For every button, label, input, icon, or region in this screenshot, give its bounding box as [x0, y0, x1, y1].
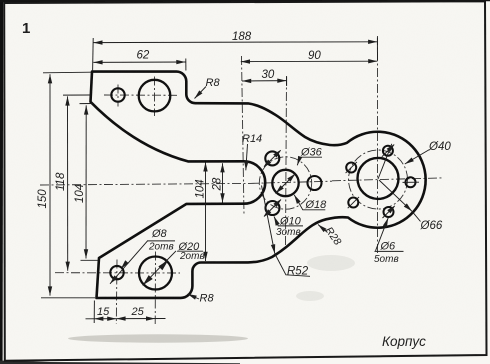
main horizontal axis boss segment	[250, 181, 332, 183]
leader F20 diagonal through hole	[143, 251, 176, 285]
F6 bottom hole diagonal	[383, 205, 396, 218]
dim text 150	[37, 189, 49, 209]
label R8 top	[206, 77, 221, 89]
leader R52 long line	[262, 186, 275, 254]
dim 104 left line	[85, 105, 87, 258]
top big hole vertical center line	[154, 77, 156, 117]
leader F66 radial	[379, 180, 412, 211]
ext line 104 top	[80, 103, 93, 105]
label R52	[287, 266, 309, 278]
cap center line x244	[242, 56, 245, 215]
leader R28	[318, 225, 328, 233]
leader F18 with shelf	[294, 195, 325, 210]
gray smudge near corpus	[296, 291, 324, 301]
ext line 150 top	[43, 71, 91, 74]
label F18	[305, 199, 328, 211]
title Korpus	[382, 334, 426, 349]
main horizontal axis left segment	[40, 183, 250, 185]
dim text 28	[212, 177, 224, 191]
bolt circle F40	[349, 150, 408, 209]
dim 150 line	[49, 74, 51, 295]
F8 leader arrows at circle	[121, 261, 128, 268]
label F66	[420, 220, 443, 232]
ext line 150 bottom	[41, 297, 95, 299]
ext line x377.5 top	[376, 38, 378, 61]
top big hole F20	[139, 80, 171, 112]
leader R8 bottom	[188, 294, 200, 299]
label 5otv	[374, 254, 399, 265]
bottom big hole F20	[139, 257, 172, 290]
label 2otv bottom	[179, 251, 205, 262]
F6 top hole radial	[378, 144, 392, 179]
dim 15-25 line	[86, 318, 166, 320]
top tab hole center line horizontal	[104, 94, 178, 96]
photo left edge	[0, 0, 3, 364]
leader R52 tail and shelf	[275, 254, 310, 277]
ext line boss top	[286, 77, 288, 87]
dim 15 arrows	[94, 318, 116, 320]
leader F8 bottom tab	[110, 241, 148, 284]
F10 hole bottom-left	[266, 201, 280, 215]
leader R14	[246, 144, 248, 170]
dim text 30	[262, 69, 275, 81]
top small hole vertical center line	[117, 85, 119, 107]
flange center line x377.5	[377, 36, 379, 253]
top small hole F8	[111, 88, 124, 101]
dim text 104 left	[74, 184, 86, 203]
label underline F6	[375, 250, 404, 252]
label R8 bottom	[200, 293, 215, 305]
boss hole F18	[272, 170, 298, 196]
F6 hole top	[383, 146, 393, 156]
F6 top hole diagonal	[382, 144, 395, 157]
F6 hole right	[406, 177, 416, 187]
dim 90 line	[241, 60, 378, 62]
label F20	[178, 241, 201, 253]
dim 104 inner line	[205, 162, 207, 261]
F6 lower-left hole diagonal	[348, 197, 359, 208]
bottom small hole F8	[110, 266, 123, 279]
ext line 118 top	[63, 94, 91, 96]
label 3otv	[276, 227, 301, 238]
dim 28 line	[222, 163, 224, 202]
leader R8 top	[195, 87, 207, 99]
gray smudge mid-right	[307, 255, 355, 271]
ext line x93 top	[92, 38, 95, 71]
figure number 1	[22, 20, 30, 37]
bottom small hole vertical center line + extension	[115, 260, 118, 325]
leader F66 tail	[412, 211, 421, 221]
dim 188 line	[93, 41, 377, 44]
dim 30 line	[242, 80, 287, 82]
F20 diag arrows	[142, 260, 168, 286]
label F8	[151, 228, 168, 240]
boss center line x286	[286, 76, 287, 247]
main horizontal axis flange segment	[332, 178, 442, 181]
F18 diag arrows	[276, 174, 295, 193]
label F10	[279, 216, 302, 228]
part outline	[91, 72, 426, 298]
F6 right hole center dash	[403, 181, 420, 183]
label F6	[380, 241, 397, 253]
dim 62 line	[93, 61, 185, 63]
dim text 104 inner	[195, 179, 207, 198]
dim text 62	[137, 50, 150, 62]
label underline F8	[147, 240, 175, 242]
bolt circle F36	[259, 157, 311, 209]
F6 upper-left hole diagonal	[346, 162, 357, 173]
photo bottom-left dark edge	[0, 361, 240, 364]
gray smudge band lower-left	[68, 334, 248, 342]
F10 bottom-left diag arrows	[263, 199, 281, 217]
label underline F20	[177, 250, 203, 252]
F10 top-left hole diagonal	[264, 150, 281, 167]
leader F10 with shelf	[274, 216, 303, 226]
F10 hole right	[308, 176, 322, 190]
label F40	[428, 141, 451, 153]
bottom big hole vertical center line + extension	[154, 252, 156, 325]
F18 hole diagonal	[276, 174, 296, 194]
dim text 15	[97, 306, 110, 318]
label 2otv top	[148, 241, 174, 252]
dim 118 line	[67, 96, 69, 270]
photo top edge	[0, 0, 490, 2]
flange center hole	[358, 158, 399, 199]
leader F6	[376, 218, 389, 251]
dim text 25	[131, 306, 145, 318]
dim text 118	[55, 172, 67, 191]
ext line 104 bottom	[81, 259, 98, 261]
F10 top-left diag arrows	[263, 150, 281, 168]
F6 hole lower-left	[348, 198, 358, 208]
ext line x94 bottom	[93, 301, 95, 324]
label R14	[242, 133, 262, 145]
dim text 188	[232, 31, 252, 43]
label R28	[323, 225, 344, 248]
leader F40	[405, 150, 430, 165]
ext line x185.7 (62 right)	[185, 59, 187, 71]
dim text 90	[308, 50, 321, 62]
dim 25 arrows	[116, 318, 155, 320]
F10 hole top-left	[265, 151, 279, 165]
leader F36 with shelf	[297, 157, 322, 165]
bottom tab hole center line horizontal	[55, 272, 180, 274]
label F36	[300, 147, 323, 159]
F6 hole upper-left	[346, 163, 356, 173]
F10 bottom-left hole diagonal	[264, 200, 281, 217]
F6 hole bottom	[384, 207, 394, 217]
